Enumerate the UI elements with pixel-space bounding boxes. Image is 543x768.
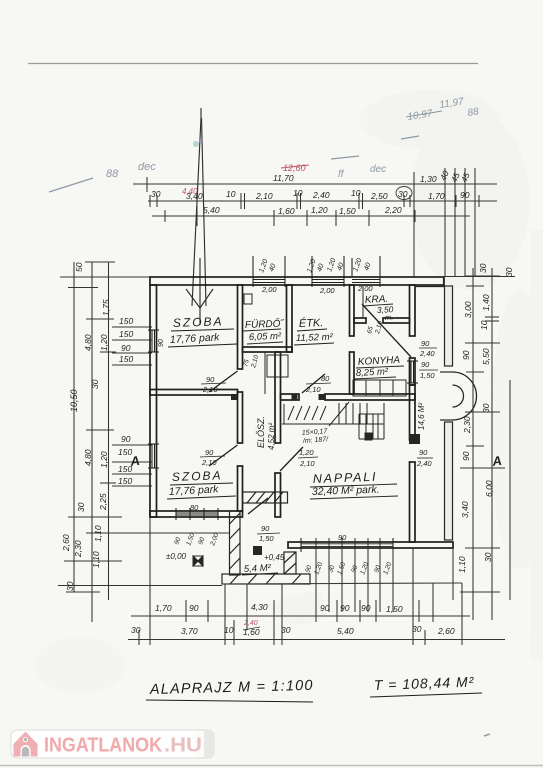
svg-text:50: 50 (74, 262, 84, 272)
stairs label (302, 428, 330, 445)
svg-text:1,20: 1,20 (99, 451, 109, 468)
svg-text:ÉTK.: ÉTK. (299, 316, 324, 330)
svg-text:30: 30 (151, 189, 161, 199)
svg-text:10: 10 (293, 188, 303, 198)
bottom rule line (0, 765, 543, 767)
kra shelf line (362, 286, 364, 317)
row B2 line (128, 639, 505, 641)
svg-text:90: 90 (205, 448, 214, 457)
svg-text:±0,00: ±0,00 (166, 552, 187, 561)
tall spike / lightning rod over plan (186, 108, 213, 325)
svg-text:2,40: 2,40 (243, 620, 258, 627)
svg-text:90: 90 (461, 451, 471, 461)
kra bottom wall (354, 318, 366, 323)
svg-text:90: 90 (121, 343, 131, 353)
svg-text:2,25: 2,25 (98, 493, 108, 511)
svg-text:10: 10 (224, 625, 234, 635)
wall szoba/hall mid (238, 392, 243, 443)
svg-text:90: 90 (460, 190, 470, 200)
svg-text:3,70: 3,70 (181, 626, 198, 636)
left dimension numbers (rotated) (61, 262, 141, 591)
svg-text:A: A (128, 453, 140, 469)
svg-text:2,00: 2,00 (357, 284, 373, 293)
konyha/nappali horizontal wall (281, 394, 300, 400)
svg-text:90: 90 (338, 533, 347, 542)
nappali bottom wall (288, 542, 453, 548)
hall right wall lower (275, 473, 281, 517)
svg-text:2,60: 2,60 (437, 626, 455, 636)
svg-text:2,40: 2,40 (419, 349, 435, 358)
svg-text:1,50: 1,50 (386, 604, 403, 614)
svg-text:4,30: 4,30 (251, 602, 268, 612)
left wall (150, 285, 157, 517)
svg-text:6,00: 6,00 (484, 480, 494, 497)
svg-text:dec: dec (370, 164, 386, 175)
terrace hatched walls (222, 492, 310, 584)
svg-text:1,10: 1,10 (91, 551, 101, 568)
svg-text:30: 30 (504, 267, 514, 277)
svg-text:2,40: 2,40 (312, 190, 330, 200)
svg-text:88: 88 (467, 106, 480, 119)
watermark house icon (pink house) (13, 732, 39, 757)
svg-text:90: 90 (421, 339, 430, 348)
svg-text:INGATLANOK: INGATLANOK (44, 735, 162, 757)
svg-text:90: 90 (461, 350, 471, 360)
svg-text:+0,45: +0,45 (264, 553, 285, 562)
svg-text:32,40 M² park.: 32,40 M² park. (312, 484, 380, 498)
svg-text:1,50: 1,50 (259, 534, 274, 543)
svg-text:30: 30 (481, 403, 491, 413)
svg-text:90: 90 (206, 375, 215, 384)
svg-text:90: 90 (261, 524, 270, 533)
svg-text:4,80: 4,80 (83, 334, 93, 351)
door étk (302, 374, 325, 393)
fixtures (244, 286, 406, 396)
svg-text:2,10: 2,10 (255, 191, 273, 201)
svg-text:3,00: 3,00 (463, 301, 473, 318)
stairs (282, 402, 384, 440)
row B1 line (131, 615, 470, 617)
svg-text:90: 90 (121, 434, 131, 444)
door lower szoba (209, 445, 238, 466)
svg-text:1,10: 1,10 (457, 556, 467, 573)
title: ALAPRAJZ M=1:100 (146, 673, 482, 702)
svg-text:10: 10 (351, 188, 361, 198)
svg-text:2,20: 2,20 (384, 205, 402, 215)
svg-text:30: 30 (281, 625, 291, 635)
wc partition + fixture (264, 352, 266, 394)
svg-text:2,40: 2,40 (416, 459, 432, 468)
door konyha (long diagonal from kra) (362, 304, 411, 357)
svg-text:1,20: 1,20 (99, 334, 109, 351)
left dimension columns (58, 262, 515, 622)
hall front wall hatched (243, 492, 288, 503)
svg-text:5,40: 5,40 (203, 205, 220, 215)
svg-text:1,10: 1,10 (93, 525, 103, 542)
window top wall étk (312, 279, 344, 281)
konyha counter row (353, 380, 406, 396)
svg-text:12,60: 12,60 (283, 163, 306, 173)
bottom dimension numbers (131, 602, 455, 637)
door hall to nappali under stairs (280, 447, 303, 471)
svg-text:1,20: 1,20 (299, 448, 314, 457)
window top wall szoba (253, 279, 285, 281)
svg-text:30: 30 (90, 379, 100, 389)
pencil handwriting notes (49, 96, 480, 192)
svg-text:2,30: 2,30 (462, 416, 472, 434)
svg-text:8,25 m²: 8,25 m² (356, 366, 390, 379)
row1 line 11,70 (133, 183, 497, 185)
wall szoba/hall upper (238, 285, 243, 369)
svg-text:m.: m. (385, 313, 394, 322)
svg-text:4,52 m²: 4,52 m² (267, 423, 276, 450)
svg-text:88: 88 (106, 168, 119, 180)
door hall entrance (248, 498, 268, 514)
svg-text:2,10: 2,10 (202, 385, 218, 394)
hall right wall upper (275, 352, 281, 443)
svg-text:5,40: 5,40 (337, 626, 354, 636)
svg-text:90: 90 (340, 603, 350, 613)
terrace right pillar (284, 552, 296, 574)
svg-text:2,50: 2,50 (370, 191, 388, 201)
svg-text:10: 10 (479, 320, 489, 330)
svg-text:SZOBA: SZOBA (172, 468, 223, 484)
door upper szoba (209, 371, 238, 392)
level marker symbol ±0,00 (193, 556, 203, 566)
lower szoba bottom wall (150, 511, 243, 517)
svg-text:2,60: 2,60 (61, 534, 71, 552)
svg-text:2,10: 2,10 (305, 385, 321, 394)
svg-text:90: 90 (189, 603, 199, 613)
étk/kra separating wall (350, 285, 355, 336)
ground line under plan (222, 583, 462, 584)
svg-text:11,70: 11,70 (273, 173, 294, 183)
svg-text:90: 90 (421, 360, 430, 369)
top rule line (28, 63, 478, 65)
top dimension chain rows (133, 168, 497, 277)
wall szoba/hall lower (238, 466, 243, 511)
svg-text:A: A (490, 453, 502, 469)
svg-text:4,80: 4,80 (83, 449, 93, 466)
window top wall kra (352, 279, 380, 281)
svg-text:1,60: 1,60 (278, 206, 295, 216)
row3 line (152, 215, 470, 217)
svg-text:30: 30 (412, 624, 422, 634)
door diagonals (209, 304, 411, 514)
svg-text:30: 30 (483, 552, 493, 562)
svg-text:2,00: 2,00 (261, 285, 277, 294)
right dimension columns (460, 268, 510, 620)
right dimension numbers (rotated) (457, 263, 514, 573)
long verticals connecting plan to rows (149, 517, 151, 645)
svg-text:2,10: 2,10 (201, 458, 217, 467)
fürdő small box (244, 294, 252, 304)
svg-text:80: 80 (190, 503, 199, 512)
watermark bar (11, 730, 490, 758)
svg-text:30: 30 (131, 625, 141, 635)
svg-text:150: 150 (119, 354, 133, 364)
svg-text:2,10: 2,10 (299, 459, 315, 468)
fürdő bottom wall (243, 347, 293, 352)
door / window small dimension labels (158, 257, 438, 575)
svg-text:11,52 m²: 11,52 m² (296, 332, 334, 344)
svg-text:10,50: 10,50 (69, 389, 79, 412)
right wall window segment (410, 358, 416, 385)
door jamb squares (231, 394, 420, 555)
svg-text:1,75: 1,75 (101, 299, 111, 316)
veranda right glazing band upper (415, 277, 453, 540)
terrace left pillar wall (230, 511, 241, 575)
svg-text:150: 150 (118, 476, 132, 486)
svg-text:150: 150 (119, 329, 133, 339)
svg-text:1,50: 1,50 (339, 206, 356, 216)
right wall lower (410, 385, 416, 440)
svg-text:80: 80 (321, 374, 330, 383)
svg-text:1,20: 1,20 (311, 205, 328, 215)
round element on right (two semicircles) (453, 372, 477, 420)
window right wall konyha (410, 361, 412, 383)
terrace bottom band (222, 574, 310, 584)
svg-text:1,70: 1,70 (428, 191, 445, 201)
svg-text:ELŐSZ.: ELŐSZ. (256, 416, 266, 448)
window lower szoba bottom wall (176, 512, 218, 514)
top wall (150, 277, 444, 285)
top dimension numbers (151, 169, 472, 216)
window left wall lower szoba (151, 444, 153, 468)
right verticals descending to plan (444, 168, 446, 277)
svg-text:1,70: 1,70 (155, 603, 172, 613)
svg-text:10: 10 (226, 189, 236, 199)
big window band nappali bottom wall (301, 543, 393, 545)
svg-text:1,50: 1,50 (420, 371, 435, 380)
svg-text:2,00: 2,00 (319, 286, 335, 295)
divider wall between the two szoba rooms (150, 390, 238, 396)
svg-text:3,40: 3,40 (460, 501, 470, 518)
svg-text:.HU: .HU (164, 735, 202, 757)
svg-text:dec: dec (138, 161, 156, 173)
svg-text:3,40: 3,40 (186, 191, 203, 201)
svg-text:5,50: 5,50 (481, 348, 491, 365)
red pencil notes (182, 163, 309, 627)
svg-text:30: 30 (478, 263, 488, 273)
right wall upper (410, 285, 416, 336)
svg-text:90: 90 (320, 603, 330, 613)
window symbols in walls (triple lines) (148, 256, 418, 552)
row2 line (148, 200, 497, 202)
svg-text:30: 30 (398, 189, 408, 199)
svg-text:90: 90 (158, 339, 165, 347)
svg-text:1,40: 1,40 (481, 294, 491, 311)
svg-text:2,30: 2,30 (73, 540, 83, 558)
svg-text:90: 90 (419, 448, 428, 457)
svg-text:1,30: 1,30 (420, 174, 437, 184)
window left wall upper szoba (151, 330, 153, 352)
svg-text:SZOBA: SZOBA (173, 314, 224, 330)
svg-text:150: 150 (119, 316, 133, 326)
svg-text:30: 30 (65, 581, 75, 591)
svg-text:6,05 m²: 6,05 m² (249, 331, 282, 343)
svg-text:30: 30 (76, 502, 86, 512)
fürdő right wall (287, 285, 293, 352)
svg-text:90: 90 (361, 603, 371, 613)
inner small ticks for 150 labels (112, 326, 152, 328)
svg-text:14,6 M²: 14,6 M² (417, 403, 426, 430)
bottom dimension rows (128, 517, 505, 645)
